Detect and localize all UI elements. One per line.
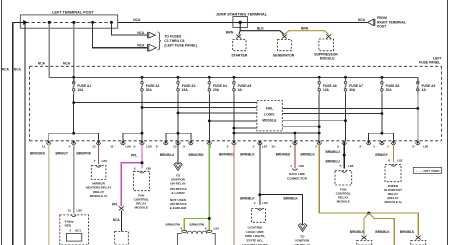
svg-text:3 ·: 3 · bbox=[359, 145, 363, 149]
wire A2 down bbox=[141, 95, 143, 141]
svg-text:MODULE: MODULE bbox=[262, 118, 277, 122]
svg-text:3: 3 bbox=[315, 145, 317, 149]
svg-text:BRN/RED: BRN/RED bbox=[276, 153, 291, 157]
svg-text:JUMP STARTING TERMINAL: JUMP STARTING TERMINAL bbox=[216, 13, 268, 17]
svg-text:LOGIC: LOGIC bbox=[264, 112, 275, 116]
lighting logic unit box bbox=[257, 209, 262, 211]
wire A1 down bbox=[73, 95, 75, 133]
wire to fuses arrow 1 bbox=[111, 22, 147, 35]
wire BRN/BLK dark bbox=[259, 143, 261, 205]
left terminal post dashed bus bbox=[26, 21, 112, 23]
node dot B4 bbox=[110, 21, 113, 24]
svg-text:BRN/GRN: BRN/GRN bbox=[190, 222, 205, 226]
svg-text:12: 12 bbox=[68, 209, 72, 213]
line box to A9 bbox=[282, 107, 418, 109]
wire A6 down bbox=[318, 95, 320, 141]
svg-text:3: 3 bbox=[205, 226, 207, 230]
svg-text:– · –: – · – bbox=[416, 169, 422, 173]
wire BRN/BLU left black bbox=[177, 143, 179, 163]
generator box bbox=[278, 40, 292, 51]
line under box A5 to A6 bbox=[234, 132, 319, 134]
svg-text:BRN/BLK: BRN/BLK bbox=[240, 153, 255, 157]
node dot B2 redraw bbox=[72, 21, 75, 24]
connector 8way box bbox=[60, 215, 89, 245]
wire NCA drop to panel B bbox=[73, 22, 75, 83]
distribution node dots bbox=[72, 101, 419, 134]
svg-text:2: 2 bbox=[290, 164, 292, 168]
svg-text:NCA: NCA bbox=[14, 68, 22, 72]
node dot jump bbox=[239, 21, 242, 24]
svg-text:MODULE: MODULE bbox=[135, 206, 148, 210]
distribution verticals bbox=[74, 95, 382, 141]
wire NCA vertical 1 bbox=[12, 22, 14, 245]
svg-text:L82: L82 bbox=[397, 159, 403, 163]
svg-text:10 ·: 10 · bbox=[271, 145, 276, 149]
line A2 to box bbox=[142, 107, 257, 109]
svg-text:3A: 3A bbox=[422, 88, 427, 92]
svg-text:FAIL: FAIL bbox=[266, 106, 273, 110]
bottom box br1 bbox=[357, 240, 372, 245]
fuse A9 bbox=[417, 77, 420, 95]
svg-text:2 ·: 2 · bbox=[373, 145, 377, 149]
svg-text:4: 4 bbox=[69, 145, 71, 149]
node dot B1 redraw bbox=[48, 21, 51, 24]
wire NCA drop to panel A bbox=[48, 22, 50, 77]
fuse panel dashed top edge bbox=[30, 65, 442, 67]
distribution horizontals to FAIL box bbox=[49, 103, 418, 141]
line box to A6 bbox=[282, 126, 319, 128]
svg-text:10A: 10A bbox=[323, 88, 330, 92]
wire BRN/GRN green bbox=[208, 143, 210, 230]
fuse panel dashed bottom row bbox=[30, 140, 442, 142]
svg-text:BRN/GRN: BRN/GRN bbox=[166, 222, 181, 226]
BRN/BLK labels bottom right bbox=[350, 230, 415, 234]
svg-text:PPL: PPL bbox=[112, 202, 118, 206]
bottom box br3 bbox=[411, 240, 426, 245]
line A5 to box bbox=[234, 127, 257, 129]
wire olive big path bbox=[319, 143, 418, 235]
svg-text:BRN/BLK: BRN/BLK bbox=[400, 230, 415, 234]
svg-text:4: 4 bbox=[290, 145, 292, 149]
from right terminal post arrow bbox=[367, 19, 375, 26]
svg-text:& EARLIER: & EARLIER bbox=[170, 206, 187, 210]
svg-text:12: 12 bbox=[42, 145, 46, 149]
svg-text:POST: POST bbox=[377, 25, 387, 29]
svg-text:SC1: SC1 bbox=[75, 229, 81, 233]
wire PPL magenta bbox=[141, 143, 143, 168]
line A4 to box bbox=[209, 120, 257, 122]
svg-text:L87: L87 bbox=[262, 145, 268, 149]
svg-text:& LATER: & LATER bbox=[171, 191, 185, 195]
wire jump down bbox=[239, 22, 241, 30]
svg-text:FUSE PANEL: FUSE PANEL bbox=[419, 61, 440, 65]
svg-text:NCA: NCA bbox=[2, 68, 10, 72]
svg-text:NCA: NCA bbox=[137, 44, 145, 48]
line A1 to box bbox=[74, 102, 257, 104]
svg-text:1: 1 bbox=[387, 145, 389, 149]
fuse A6 bbox=[318, 77, 321, 95]
svg-text:MODULE C): MODULE C) bbox=[90, 194, 108, 198]
bottom box ppl bbox=[115, 231, 129, 245]
fuse A1 bbox=[72, 77, 75, 95]
wire A4 down bbox=[208, 95, 210, 141]
FAIL LOGIC MODULE box bbox=[257, 100, 282, 130]
svg-text:8 ·: 8 · bbox=[183, 145, 187, 149]
svg-text:RED: RED bbox=[65, 224, 72, 228]
olive branch middle drop bbox=[369, 213, 374, 218]
wire starter diag bbox=[239, 31, 240, 35]
svg-text:MODULE 3): MODULE 3) bbox=[384, 200, 401, 204]
svg-text:MODULE: MODULE bbox=[337, 200, 350, 204]
green pin labels bbox=[166, 222, 220, 230]
svg-text:L89: L89 bbox=[299, 164, 305, 168]
wire BRN/GY gray bbox=[73, 143, 75, 213]
connector X starter bbox=[236, 34, 241, 38]
svg-text:20A: 20A bbox=[213, 88, 220, 92]
svg-text:BRN/GY: BRN/GY bbox=[56, 152, 69, 156]
node dot B1 bbox=[48, 21, 51, 24]
offpage arrow 1 bbox=[148, 32, 156, 38]
fuse A8 bbox=[381, 77, 384, 95]
bracket A2 bbox=[123, 133, 142, 141]
svg-text:NCA: NCA bbox=[133, 18, 141, 22]
mirror heaters relay box bbox=[96, 166, 101, 168]
line box to A8 bbox=[282, 113, 382, 115]
svg-text:BRN/BLU: BRN/BLU bbox=[326, 160, 341, 164]
olive branch left drop bbox=[364, 213, 369, 218]
connector X ppl bbox=[119, 206, 124, 210]
line box to A7 bbox=[282, 120, 345, 122]
fan control relay module box (right) bbox=[342, 171, 347, 173]
svg-text:8: 8 bbox=[388, 159, 390, 163]
jump starting terminal box bbox=[233, 17, 248, 28]
wire colour labels below row bbox=[30, 150, 389, 163]
bracket A8 bbox=[369, 133, 394, 141]
connector X br1 bbox=[362, 236, 367, 240]
svg-text:BRN/BLU: BRN/BLU bbox=[160, 153, 175, 157]
svg-text:6: 6 bbox=[181, 226, 183, 230]
border frame right bbox=[447, 0, 449, 245]
svg-text:6 ·: 6 · bbox=[412, 145, 416, 149]
svg-text:NCA: NCA bbox=[63, 61, 71, 65]
svg-text:NOT USED: NOT USED bbox=[424, 169, 441, 173]
svg-text:30A: 30A bbox=[349, 88, 356, 92]
svg-text:L80: L80 bbox=[262, 201, 268, 205]
wire to fuses arrow 2 bbox=[93, 22, 147, 47]
wire BRN/PNK maroon bbox=[98, 143, 100, 164]
svg-text:6: 6 bbox=[134, 166, 136, 170]
svg-text:TO FUSES: TO FUSES bbox=[164, 34, 182, 38]
wire BRN/RED salmon bbox=[233, 143, 235, 245]
svg-text:9: 9 bbox=[337, 145, 339, 149]
svg-text:L88: L88 bbox=[348, 164, 354, 168]
svg-text:10: 10 bbox=[173, 145, 177, 149]
svg-text:BRN/BLK: BRN/BLK bbox=[350, 230, 365, 234]
fuse A3 bbox=[177, 77, 180, 95]
svg-text:BRN/BLK: BRN/BLK bbox=[284, 197, 299, 201]
svg-text:10A: 10A bbox=[77, 88, 84, 92]
svg-text:7: 7 bbox=[94, 159, 96, 163]
svg-text:5: 5 bbox=[340, 164, 342, 168]
svg-text:L80: L80 bbox=[423, 145, 429, 149]
svg-text:L80: L80 bbox=[146, 145, 152, 149]
svg-text:BRN/BLU: BRN/BLU bbox=[326, 150, 341, 154]
svg-text:30A: 30A bbox=[146, 88, 153, 92]
svg-text:NCA: NCA bbox=[137, 31, 145, 35]
svg-text:ON RELAY: ON RELAY bbox=[170, 181, 187, 185]
starter box bbox=[233, 40, 246, 51]
fuse A4 bbox=[208, 77, 211, 95]
svg-text:11 ·: 11 · bbox=[110, 145, 115, 149]
svg-text:L86: L86 bbox=[125, 145, 131, 149]
wire BLK bbox=[240, 31, 284, 35]
fuse panel dashed right edge bbox=[441, 66, 443, 141]
terminal post arrow bbox=[23, 20, 27, 25]
pin numbers bbox=[42, 145, 429, 149]
svg-text:2: 2 bbox=[253, 145, 255, 149]
svg-text:L80: L80 bbox=[146, 166, 152, 170]
svg-text:MODULE: MODULE bbox=[320, 56, 335, 60]
svg-text:15A: 15A bbox=[182, 88, 189, 92]
svg-text:3: 3 bbox=[69, 229, 71, 233]
svg-text:L86: L86 bbox=[102, 159, 108, 163]
connector X br3 bbox=[416, 236, 421, 240]
ignition triangle symbol left bbox=[174, 163, 182, 171]
wire BRN olive bbox=[284, 31, 328, 35]
fuse panel dashed left edge bbox=[29, 66, 31, 141]
svg-text:6: 6 bbox=[134, 145, 136, 149]
not used legend bbox=[413, 167, 441, 173]
main NCA line bbox=[118, 21, 368, 23]
svg-text:BLK: BLK bbox=[257, 27, 264, 31]
svg-text:STARTER: STARTER bbox=[231, 53, 247, 57]
svg-text:GENERATOR: GENERATOR bbox=[273, 53, 295, 57]
svg-text:L83: L83 bbox=[214, 226, 220, 230]
svg-text:NCA: NCA bbox=[38, 61, 46, 65]
wire left feed horizontal bbox=[13, 21, 24, 23]
wiper relay box bbox=[391, 165, 396, 167]
fuse A5 bbox=[233, 77, 236, 95]
fuse A7 bbox=[344, 77, 347, 95]
svg-text:L80: L80 bbox=[77, 209, 83, 213]
node dot B3 bbox=[91, 21, 94, 24]
svg-text:C1 THRU C6: C1 THRU C6 bbox=[164, 39, 184, 43]
svg-text:NCA: NCA bbox=[358, 18, 366, 22]
svg-text:BRN: BRN bbox=[301, 27, 309, 31]
wire A9 down gray bbox=[417, 83, 419, 141]
svg-text:NCA: NCA bbox=[113, 218, 121, 222]
fuse labels bbox=[77, 84, 435, 92]
node dot B2 bbox=[72, 21, 75, 24]
svg-text:13: 13 bbox=[92, 145, 96, 149]
svg-text:20A: 20A bbox=[386, 88, 393, 92]
svg-text:LEFT TERMINAL POST: LEFT TERMINAL POST bbox=[52, 11, 94, 15]
svg-text:BRN/GRN: BRN/GRN bbox=[189, 153, 205, 157]
scalloped connector box bbox=[178, 230, 216, 245]
wire A8 down bbox=[381, 95, 383, 133]
wire A7 down bbox=[345, 95, 347, 141]
wire NCA vertical 2 bbox=[24, 24, 26, 245]
svg-text:PPL: PPL bbox=[131, 154, 137, 158]
connector X generator bbox=[282, 34, 287, 38]
svg-text:BRN/PNK: BRN/PNK bbox=[77, 152, 92, 156]
svg-text:BRN: BRN bbox=[226, 30, 234, 34]
wire BRN/GY olive wiper bbox=[392, 143, 394, 162]
wire BRN/BLU right black bbox=[343, 143, 345, 168]
svg-text:(LEFT FUSE PANEL): (LEFT FUSE PANEL) bbox=[164, 44, 197, 48]
wire BRN/RED darkred datalink bbox=[294, 143, 296, 168]
wire BRN/BLK branch right bbox=[260, 195, 303, 225]
bracket A3 bbox=[166, 133, 191, 141]
offpage arrow 2 bbox=[148, 44, 157, 51]
wire datalink drop inside panel bbox=[294, 133, 296, 141]
brace bbox=[158, 32, 161, 50]
wire BRN/ORG tan bbox=[48, 143, 50, 245]
svg-text:BRN/BLK: BRN/BLK bbox=[301, 153, 316, 157]
svg-text:3A: 3A bbox=[238, 88, 243, 92]
svg-text:9 ·: 9 · bbox=[156, 145, 160, 149]
svg-text:2: 2 bbox=[254, 201, 256, 205]
svg-text:CONNECTOR: CONNECTOR bbox=[287, 176, 308, 180]
fan control relay module box (left) bbox=[140, 171, 145, 173]
connector X suppressor bbox=[326, 34, 331, 38]
svg-text:BRN/RED: BRN/RED bbox=[219, 153, 234, 157]
border frame left bbox=[0, 0, 2, 245]
suppressor box bbox=[319, 39, 334, 51]
svg-text:3: 3 bbox=[227, 145, 229, 149]
svg-text:BRN/BLK: BRN/BLK bbox=[375, 230, 390, 234]
wire A5 down bbox=[233, 95, 235, 141]
wire NCA black down bbox=[120, 210, 122, 231]
svg-text:BRN/ORG: BRN/ORG bbox=[30, 152, 46, 156]
line A3 to box bbox=[178, 112, 257, 114]
svg-text:BRN/GY: BRN/GY bbox=[375, 153, 388, 157]
fuse A2 bbox=[141, 77, 144, 95]
main bus bbox=[49, 77, 418, 83]
bracket A1 bbox=[49, 133, 99, 141]
wire A3 down bbox=[177, 95, 179, 141]
left terminal post box bbox=[20, 15, 117, 28]
ignition crown symbol right bbox=[298, 224, 307, 232]
